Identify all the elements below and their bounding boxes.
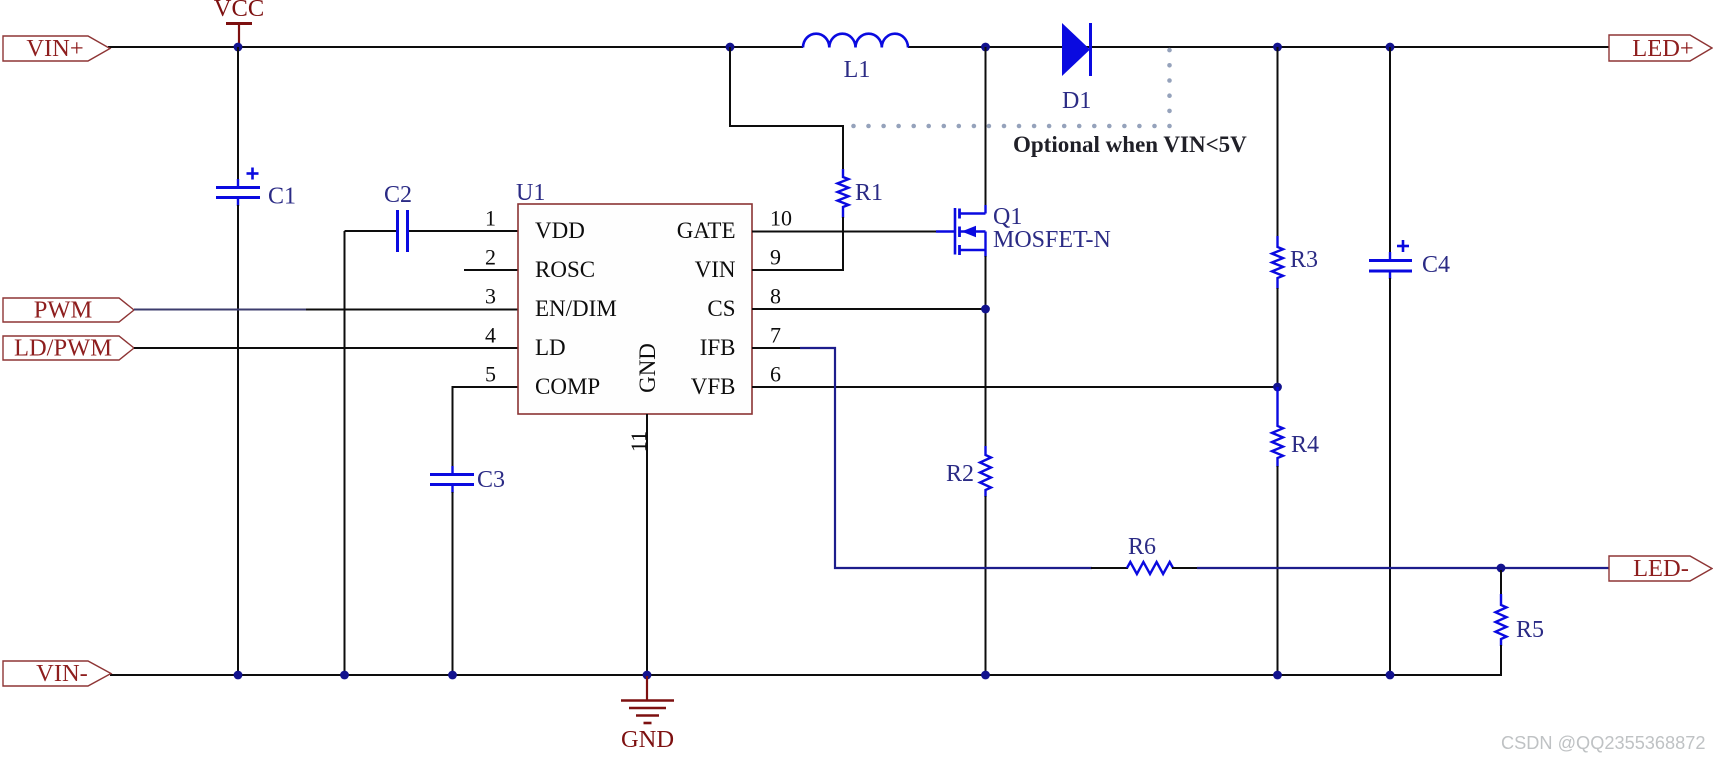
svg-text:1: 1 (485, 206, 496, 231)
svg-text:CSDN @QQ2355368872: CSDN @QQ2355368872 (1501, 733, 1706, 753)
wire C4 riser upper (1389, 47, 1391, 253)
svg-text:CS: CS (707, 296, 735, 321)
svg-text:VCC: VCC (214, 0, 264, 22)
wire top rail right (inductor to LED+) (908, 46, 1609, 48)
node bottom rail junctions (234, 671, 1395, 680)
svg-text:GATE: GATE (677, 218, 736, 243)
svg-text:U1: U1 (516, 180, 545, 206)
optional dotted line (851, 48, 1172, 129)
svg-text:MOSFET-N: MOSFET-N (993, 227, 1111, 253)
wire GATE pin 10 to Q1 (752, 231, 936, 233)
resistor R5 (1496, 570, 1545, 675)
wire PWM to EN/DIM (134, 309, 306, 311)
port VIN+ (3, 36, 110, 61)
svg-text:9: 9 (770, 245, 781, 270)
svg-text:R4: R4 (1291, 432, 1319, 458)
svg-text:LED-: LED- (1633, 555, 1689, 582)
wire R2 to ground rail (985, 496, 987, 675)
transistor Q1 MOSFET-N (936, 204, 1111, 257)
resistor R2 (946, 446, 991, 497)
capacitor C3 (430, 466, 505, 493)
node VFB junction (1273, 383, 1282, 392)
op-amp U1 body (518, 204, 752, 414)
wire VFB pin 6 (752, 386, 1278, 388)
svg-text:Optional when VIN<5V: Optional when VIN<5V (1013, 132, 1247, 157)
resistor R4 (1272, 387, 1319, 467)
svg-text:GND: GND (621, 726, 674, 753)
svg-text:D1: D1 (1062, 88, 1091, 114)
svg-text:4: 4 (485, 323, 496, 348)
svg-text:6: 6 (770, 362, 781, 387)
svg-text:IFB: IFB (700, 335, 736, 360)
svg-text:COMP: COMP (535, 374, 600, 399)
power VCC (214, 0, 264, 45)
port VIN- (3, 661, 111, 686)
node CS junction (981, 305, 990, 314)
port PWM (3, 298, 134, 322)
wire IFB net navy (800, 348, 1092, 568)
svg-text:EN/DIM: EN/DIM (535, 296, 617, 321)
svg-text:L1: L1 (844, 57, 871, 83)
wire R4 to ground rail (1277, 466, 1279, 675)
node R3 top junction (1273, 43, 1282, 52)
pin 2 ROSC stub (464, 269, 518, 271)
svg-text:5: 5 (485, 362, 496, 387)
svg-text:R5: R5 (1516, 617, 1544, 643)
wire R1 to VIN pin 9 (752, 217, 843, 270)
svg-text:R6: R6 (1128, 534, 1156, 560)
svg-text:PWM: PWM (34, 297, 93, 324)
wire CS pin 8 (752, 308, 986, 310)
wire bottom ground rail (110, 674, 1502, 676)
svg-text:10: 10 (770, 206, 792, 231)
wire drain riser (985, 47, 987, 207)
U1 pin names (535, 218, 736, 399)
svg-text:R2: R2 (946, 461, 974, 487)
ground GND symbol (621, 676, 674, 753)
node VCC junction (234, 43, 243, 52)
svg-text:R3: R3 (1290, 247, 1318, 273)
svg-text:GND: GND (635, 343, 660, 393)
wire C4 riser lower (1389, 278, 1391, 675)
svg-text:LD/PWM: LD/PWM (14, 335, 112, 362)
svg-text:3: 3 (485, 284, 496, 309)
wire C1 riser lower (237, 205, 239, 675)
wire R3 to VFB node (1277, 288, 1279, 387)
wire VDD to C2 (345, 230, 397, 232)
inductor L1 (803, 34, 908, 83)
node L1 left junction (726, 43, 735, 52)
port LED- (1609, 556, 1712, 581)
wire C1 riser upper (237, 47, 239, 181)
svg-text:8: 8 (770, 284, 781, 309)
wire R6 to LED- (1197, 567, 1609, 569)
svg-text:VIN: VIN (695, 257, 736, 282)
svg-text:2: 2 (485, 245, 496, 270)
svg-text:VIN-: VIN- (36, 660, 88, 687)
svg-text:R1: R1 (855, 180, 883, 206)
wire IFB pin 7 stub (752, 347, 801, 349)
svg-text:VDD: VDD (535, 218, 585, 243)
wire C3 riser lower (452, 492, 454, 675)
svg-text:7: 7 (770, 323, 781, 348)
capacitor C4 (1369, 240, 1450, 279)
svg-text:VIN+: VIN+ (26, 35, 83, 62)
wire LD/PWM to LD (134, 347, 518, 349)
port LED+ (1609, 35, 1712, 61)
node switch top junction (981, 43, 990, 52)
svg-text:C3: C3 (477, 467, 505, 493)
node C4 top junction (1386, 43, 1395, 52)
resistor R1 (838, 169, 884, 218)
node LED- junction (1497, 564, 1506, 573)
wire R3 riser upper (1277, 47, 1279, 237)
svg-text:C1: C1 (268, 184, 296, 210)
wire source riser (985, 256, 987, 446)
svg-text:LD: LD (535, 335, 566, 360)
diode D1 (1062, 23, 1091, 114)
svg-text:C4: C4 (1422, 252, 1450, 278)
U1 pin numbers (485, 206, 792, 453)
svg-text:ROSC: ROSC (535, 257, 595, 282)
wire VDD riser (344, 231, 346, 675)
wire VCC rail down to R1 corner (730, 47, 843, 170)
svg-text:C2: C2 (384, 182, 412, 208)
resistor R3 (1272, 236, 1318, 289)
wire top rail left (VIN+ to inductor) (108, 46, 803, 48)
wire C2 to pin 1 (409, 230, 518, 232)
port LD/PWM (3, 336, 134, 360)
wire COMP pin 5 (453, 387, 519, 468)
capacitor C1 (216, 168, 296, 210)
wire GND pin 11 (646, 414, 648, 675)
capacitor C2 (384, 182, 412, 252)
svg-text:LED+: LED+ (1632, 35, 1693, 62)
svg-text:VFB: VFB (691, 374, 736, 399)
resistor R6 (1091, 534, 1198, 574)
